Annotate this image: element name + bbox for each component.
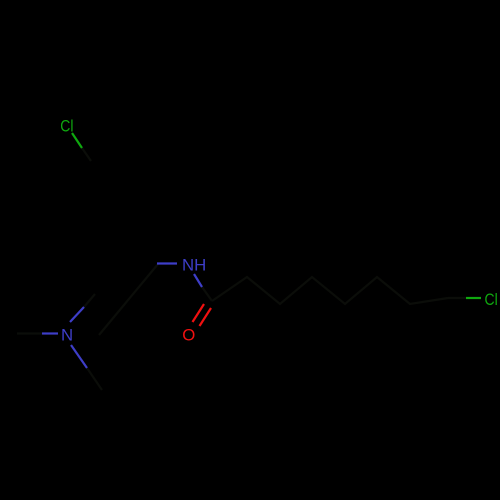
wire: aliphatic chain zigzag from carbonyl C to CH2Cl [212, 277, 448, 304]
bond N to CH3 down-right (blue half) [71, 345, 87, 368]
bond N to CH3 left (blue half) [42, 332, 58, 334]
wire: dark half of CH2-Cl2 bond [448, 297, 466, 299]
svg-text:Cl: Cl [485, 290, 498, 309]
wire: dark half of N-CH3 left bond [17, 332, 42, 334]
double bond C=O (red halves, two parallel lines) [193, 304, 205, 322]
svg-text:O: O [182, 325, 195, 344]
bond NH to carbonyl C (blue half) [194, 274, 202, 287]
bond N to C stem up-right (blue half) [70, 307, 84, 322]
bond C to NH (blue) [157, 262, 177, 264]
svg-text:N: N [61, 325, 73, 344]
wire: dark half of Cl1-CH3 bond [82, 148, 91, 161]
svg-text:Cl: Cl [60, 117, 73, 136]
wire: bond C(NH) to C down-left (long diagonal) [99, 264, 158, 335]
wire: dark half of N-CH3 bond down-right [87, 368, 102, 390]
svg-text:NH: NH [182, 256, 206, 275]
bond C to Cl2 (green half) [466, 297, 481, 299]
wire: dark half of NH-C(=O) bond [202, 287, 212, 301]
bond Cl1 to C (green half) [72, 133, 82, 148]
wire: dark half of N-C stem bond up-right [84, 294, 95, 307]
